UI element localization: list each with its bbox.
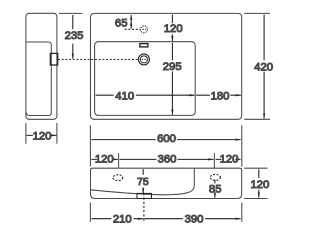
svg-text:120: 120 <box>33 130 52 142</box>
row2 tick right <box>213 153 215 168</box>
top view outer rect <box>91 13 242 119</box>
top view bowl rect <box>95 42 196 116</box>
side view mounting tab <box>50 53 57 65</box>
dim 295: arrows <box>171 43 173 115</box>
dashed centerline to tap hole <box>58 58 138 60</box>
dim 420: arrows <box>263 15 265 119</box>
dim 360: arrows <box>120 158 214 160</box>
dim 120 front height: extension lines <box>244 168 267 198</box>
svg-text:390: 390 <box>185 214 204 226</box>
tap hole inner circle <box>140 56 147 63</box>
dim 235: arrows <box>72 15 74 59</box>
dim 410: line <box>96 94 195 96</box>
svg-text:180: 180 <box>211 90 230 102</box>
svg-text:75: 75 <box>137 176 149 188</box>
side view inner profile <box>26 42 51 116</box>
tap hole outer circle <box>138 54 149 65</box>
dim 120 top: arrows <box>171 15 173 41</box>
dim 120 front height: arrows <box>258 169 260 197</box>
svg-text:120: 120 <box>95 153 114 165</box>
dim 120 left: arrows <box>91 158 117 160</box>
dim 420: extension lines <box>244 13 270 119</box>
front view underside curve <box>91 168 195 194</box>
svg-text:235: 235 <box>65 30 84 42</box>
svg-text:410: 410 <box>115 90 134 102</box>
drain dashed centerline <box>143 193 145 221</box>
dim 210: arrows <box>91 218 143 220</box>
dim 120 side width: extension lines <box>26 123 57 144</box>
svg-text:295: 295 <box>163 61 182 73</box>
dim 65: arrow <box>130 15 132 29</box>
dim 390: arrows <box>145 218 241 220</box>
svg-text:65: 65 <box>115 17 128 29</box>
overflow hole dashed circle <box>140 26 147 33</box>
dim 75: arrows <box>142 169 144 193</box>
front view outer rect <box>91 168 242 198</box>
side view outer body <box>26 13 57 119</box>
svg-text:210: 210 <box>113 214 132 226</box>
dim 180: line <box>196 94 241 96</box>
overflow slot rect <box>140 44 148 47</box>
dim 210/390: left extension line <box>90 203 241 222</box>
dim 600: arrows <box>91 139 240 141</box>
svg-text:85: 85 <box>209 183 222 195</box>
drain rect <box>137 193 151 198</box>
svg-text:420: 420 <box>254 61 273 73</box>
svg-text:120: 120 <box>250 179 269 191</box>
mounting hole right (dashed ellipse) <box>210 174 220 180</box>
svg-text:120: 120 <box>164 23 183 35</box>
svg-text:120: 120 <box>220 153 239 165</box>
dim 120 side width: arrows <box>26 134 56 136</box>
dim 235: top extension line <box>59 12 83 14</box>
dim 600: extension lines <box>90 125 241 167</box>
row2 tick left <box>118 153 120 168</box>
dashed centerline to overflow <box>125 28 141 30</box>
svg-text:600: 600 <box>157 133 176 145</box>
svg-text:360: 360 <box>158 153 177 165</box>
mounting hole left (dashed ellipse) <box>113 175 123 181</box>
dim 120 right: arrows <box>216 158 241 160</box>
dim 85: arrows <box>214 180 216 198</box>
